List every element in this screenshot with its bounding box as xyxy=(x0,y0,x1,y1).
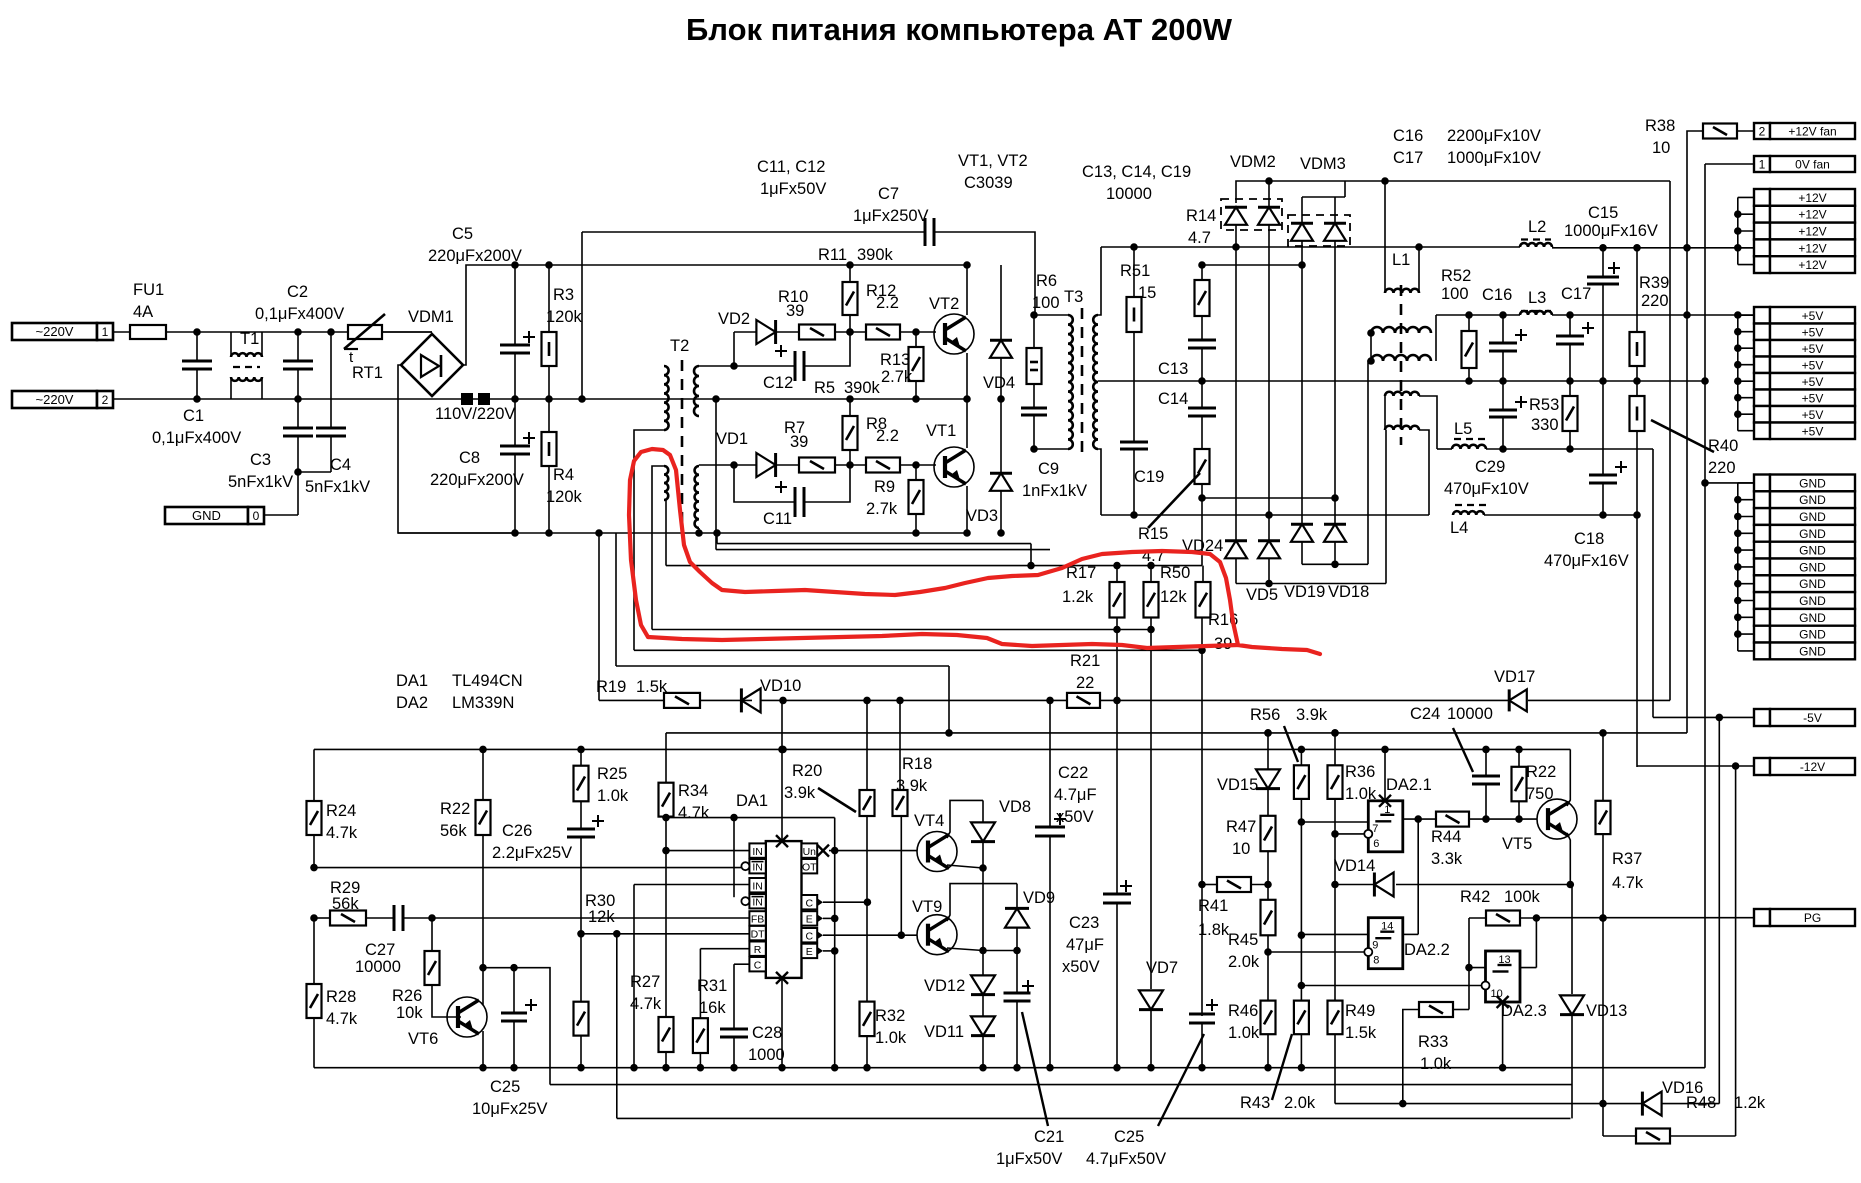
capacitor C22 xyxy=(1049,700,1051,827)
wire C27 to DA1 FB xyxy=(432,917,749,919)
resistor R24 xyxy=(313,749,315,801)
svg-text:DA2.2: DA2.2 xyxy=(1404,941,1450,959)
wire R36 chain xyxy=(1334,799,1336,1001)
resistor R51 xyxy=(1133,247,1135,297)
diode VD5 pair xyxy=(1225,541,1247,559)
svg-text:R44: R44 xyxy=(1431,828,1461,846)
svg-text:VD10: VD10 xyxy=(760,677,801,695)
diode VD15 xyxy=(1264,729,1272,737)
svg-text:C24: C24 xyxy=(1410,705,1440,723)
capacitor C29 xyxy=(1502,381,1504,410)
svg-text:5nFx1kV: 5nFx1kV xyxy=(228,473,293,491)
svg-text:R38: R38 xyxy=(1645,117,1675,135)
svg-text:C23: C23 xyxy=(1069,914,1099,932)
svg-text:VT1, VT2: VT1, VT2 xyxy=(958,152,1028,170)
resistor R33 xyxy=(1419,1002,1453,1017)
resistor R26 xyxy=(431,918,433,951)
svg-text:C18: C18 xyxy=(1574,530,1604,548)
svg-text:GND: GND xyxy=(1799,560,1826,574)
svg-text:GND: GND xyxy=(1799,510,1826,524)
wire R20 bottom xyxy=(866,816,868,1002)
svg-text:L2: L2 xyxy=(1528,218,1546,236)
svg-text:C12: C12 xyxy=(763,374,793,392)
svg-text:2.2: 2.2 xyxy=(876,294,899,312)
wire bundle y650 xyxy=(634,649,1202,651)
svg-text:220μFx200V: 220μFx200V xyxy=(430,471,524,489)
resistor R6 xyxy=(1030,311,1038,319)
svg-text:C1: C1 xyxy=(183,407,204,425)
svg-text:47μF: 47μF xyxy=(1066,936,1104,954)
svg-text:C4: C4 xyxy=(330,456,351,474)
svg-text:7: 7 xyxy=(1372,823,1378,835)
svg-text:3.9k: 3.9k xyxy=(784,784,816,802)
svg-text:R52: R52 xyxy=(1441,267,1471,285)
rectifier VDM2 xyxy=(1221,199,1282,230)
wire VT1 collector xyxy=(966,399,968,448)
svg-text:10: 10 xyxy=(1652,139,1670,157)
wire T2 right aux down xyxy=(665,500,667,566)
comparator DA2.1 xyxy=(1368,801,1403,852)
svg-text:R26: R26 xyxy=(392,987,422,1005)
svg-text:GND: GND xyxy=(1799,644,1826,658)
svg-text:3.9k: 3.9k xyxy=(896,777,928,795)
connector PG xyxy=(1754,909,1770,926)
svg-text:R53: R53 xyxy=(1529,396,1559,414)
fuse FU1 xyxy=(130,325,166,339)
svg-text:1.2k: 1.2k xyxy=(1734,1094,1766,1112)
resistor R44 xyxy=(1436,812,1469,827)
wire DA2.1 in- xyxy=(1335,833,1364,835)
wire C7 to T3 primary top xyxy=(934,232,1035,315)
svg-text:T1: T1 xyxy=(240,330,259,348)
resistor R40 xyxy=(1636,381,1638,396)
svg-text:0,1μFx400V: 0,1μFx400V xyxy=(255,305,344,323)
svg-text:GND: GND xyxy=(1799,577,1826,591)
svg-text:C: C xyxy=(806,897,814,909)
svg-text:2.2: 2.2 xyxy=(876,427,899,445)
svg-text:GND: GND xyxy=(1799,611,1826,625)
svg-text:220: 220 xyxy=(1641,292,1669,310)
svg-text:R56: R56 xyxy=(1250,706,1280,724)
wire aux tap y549 xyxy=(715,399,717,550)
svg-text:C13: C13 xyxy=(1158,360,1188,378)
svg-text:C11: C11 xyxy=(763,510,792,528)
svg-text:120k: 120k xyxy=(546,488,583,506)
wire ground rail control xyxy=(314,1067,1705,1069)
snubber chain C13 C14 x1202 xyxy=(1198,261,1206,269)
svg-text:-12V: -12V xyxy=(1800,760,1825,774)
wire +12V aux vertical x1670 xyxy=(1669,181,1671,700)
resistor R43 xyxy=(1294,1001,1309,1035)
svg-text:VD14: VD14 xyxy=(1334,857,1375,875)
wire AC line 2 xyxy=(113,398,432,400)
wire R42 left down xyxy=(1468,918,1470,1010)
wire DA2.1 in+ xyxy=(1301,821,1368,823)
resistor R20 xyxy=(860,790,875,816)
comparator DA2.3 xyxy=(1486,951,1521,1002)
connector -12V xyxy=(1754,758,1770,775)
svg-text:VD2: VD2 xyxy=(718,310,750,328)
svg-text:GND: GND xyxy=(1799,544,1826,558)
wire DA1 C2 to VT9 base xyxy=(823,934,917,936)
resistor R39 xyxy=(1636,248,1638,332)
svg-text:4.7μFx50V: 4.7μFx50V xyxy=(1086,1150,1166,1168)
wire feedback bundle y543 xyxy=(716,533,718,544)
svg-text:1.8k: 1.8k xyxy=(1198,921,1230,939)
svg-text:+5V: +5V xyxy=(1802,342,1824,356)
connector 0V fan xyxy=(1754,156,1770,172)
svg-text:+12V fan: +12V fan xyxy=(1788,125,1836,139)
transistor VT4 xyxy=(917,832,957,872)
svg-text:VD4: VD4 xyxy=(983,374,1015,392)
wire reference rail y733 xyxy=(666,732,1687,734)
svg-text:x50V: x50V xyxy=(1062,958,1100,976)
svg-text:RT1: RT1 xyxy=(352,364,383,382)
diode VD3 xyxy=(1000,399,1002,473)
resistor R9 xyxy=(915,465,917,480)
svg-text:2.0k: 2.0k xyxy=(1228,953,1260,971)
svg-text:x50V: x50V xyxy=(1056,808,1094,826)
wire T3 primary top xyxy=(1034,314,1068,316)
svg-text:L3: L3 xyxy=(1528,289,1546,307)
svg-text:VT1: VT1 xyxy=(926,422,956,440)
svg-text:GND: GND xyxy=(1799,476,1826,490)
svg-text:L5: L5 xyxy=(1454,420,1472,438)
wire DA1 C pin to C28 xyxy=(734,963,749,965)
capacitor C9 xyxy=(1033,384,1035,408)
transistor VT2 xyxy=(934,314,974,354)
wire y265 link xyxy=(1202,264,1302,266)
svg-text:0V fan: 0V fan xyxy=(1795,158,1830,172)
svg-text:VT5: VT5 xyxy=(1502,835,1532,853)
wire -5V distribution down xyxy=(1718,717,1720,1103)
wire -12V distribution down xyxy=(1735,766,1737,1136)
wire VT4 emitter xyxy=(947,865,983,868)
svg-text:470μFx10V: 470μFx10V xyxy=(1444,480,1529,498)
svg-text:C15: C15 xyxy=(1588,204,1618,222)
wire VD16 R48 loop xyxy=(1602,918,1604,1104)
svg-text:12k: 12k xyxy=(588,908,615,926)
svg-text:VD1: VD1 xyxy=(716,430,748,448)
diode VD7 xyxy=(1150,700,1152,989)
wire T3 center tap ground rail xyxy=(1098,380,1705,382)
bridge rectifier VDM1 xyxy=(401,334,463,396)
svg-text:C3: C3 xyxy=(250,451,271,469)
connector ~220V pin 2 xyxy=(12,391,97,408)
diode VD16 xyxy=(1642,1092,1661,1116)
capacitor C26 xyxy=(580,801,582,829)
wire bundle y629 xyxy=(652,629,1151,631)
transistor VT1 xyxy=(934,447,974,487)
wire R42 right down xyxy=(1535,918,1537,968)
wire bundle y565 xyxy=(666,565,1202,567)
wire bridge + output xyxy=(463,265,583,365)
wire +310V rail to T2 region xyxy=(583,264,967,266)
svg-text:R34: R34 xyxy=(678,782,708,800)
svg-text:E: E xyxy=(806,946,813,958)
svg-text:R28: R28 xyxy=(326,988,356,1006)
wire x616 to rail y1118 xyxy=(616,934,618,1119)
svg-text:R27: R27 xyxy=(630,973,660,991)
svg-text:C21: C21 xyxy=(1034,1128,1064,1146)
svg-text:GND: GND xyxy=(1799,594,1826,608)
svg-text:R4: R4 xyxy=(553,466,574,484)
wire VT2 emitter xyxy=(966,353,968,399)
capacitor C4 xyxy=(330,332,332,428)
svg-text:C25: C25 xyxy=(490,1078,520,1096)
svg-text:1000: 1000 xyxy=(748,1046,785,1064)
connector block +5V xyxy=(1754,307,1770,324)
svg-text:+5V: +5V xyxy=(1802,358,1824,372)
capacitor C3 xyxy=(297,399,299,428)
wire rail y515 xyxy=(1101,514,1429,516)
svg-text:+5V: +5V xyxy=(1802,309,1824,323)
diode VD2 xyxy=(734,331,756,333)
svg-text:DA2.3: DA2.3 xyxy=(1501,1002,1547,1020)
capacitor C7 xyxy=(924,218,927,246)
svg-text:R22: R22 xyxy=(1526,763,1556,781)
wire Un loop xyxy=(834,818,836,851)
svg-text:R: R xyxy=(754,944,762,956)
svg-text:L1: L1 xyxy=(1392,251,1410,269)
svg-text:GND: GND xyxy=(192,508,221,523)
wire R19 feed xyxy=(598,533,600,700)
wire VT9 collector xyxy=(947,884,1017,921)
svg-text:1μFx250V: 1μFx250V xyxy=(853,207,929,225)
rectifier VDM3 xyxy=(1288,215,1350,246)
svg-text:R18: R18 xyxy=(902,755,932,773)
svg-text:R48: R48 xyxy=(1686,1094,1716,1112)
svg-text:1.5k: 1.5k xyxy=(636,678,668,696)
diode VD1 xyxy=(734,464,756,466)
resistor R16 xyxy=(1202,566,1204,582)
svg-text:R6: R6 xyxy=(1036,272,1057,290)
resistor R10 xyxy=(799,325,835,340)
svg-text:FU1: FU1 xyxy=(133,281,164,299)
wire rail y918 left xyxy=(314,917,330,919)
wire 0V fan down to ground xyxy=(1705,163,1754,165)
svg-text:VD3: VD3 xyxy=(966,507,998,525)
capacitor C21 1uF xyxy=(1016,951,1018,994)
wire -12V feed xyxy=(1637,765,1754,767)
wire C3 C4 common to GND connector xyxy=(298,471,331,473)
svg-text:IN: IN xyxy=(752,896,763,908)
wire DA1 bottom pin xyxy=(781,978,783,1068)
wire VT5 collector xyxy=(1567,749,1570,806)
svg-text:330: 330 xyxy=(1531,416,1559,434)
wire x582 vertical C7 return xyxy=(581,232,583,399)
connector block GND xyxy=(1754,475,1770,492)
wire y498 link xyxy=(1202,497,1335,499)
thermistor RT1 xyxy=(348,325,382,339)
wire rail y1118 xyxy=(617,1117,1571,1119)
svg-text:2: 2 xyxy=(102,393,109,407)
wire mid rail 110V switch xyxy=(432,398,583,400)
wire VD5 output to L1 xyxy=(1235,558,1237,584)
wire R18 bottom xyxy=(900,816,902,935)
svg-text:120k: 120k xyxy=(546,308,583,326)
svg-text:+12V: +12V xyxy=(1798,208,1826,222)
svg-text:VD11: VD11 xyxy=(924,1023,964,1041)
svg-text:R22: R22 xyxy=(440,800,470,818)
wire -5V winding rail y449 xyxy=(1437,448,1452,450)
svg-text:4.7k: 4.7k xyxy=(678,804,710,822)
capacitor C23 xyxy=(1116,700,1118,894)
svg-text:R50: R50 xyxy=(1160,564,1190,582)
wire DA2.2 output xyxy=(1403,933,1418,935)
svg-text:+5V: +5V xyxy=(1802,424,1824,438)
resistor R4 xyxy=(548,399,550,432)
svg-text:-5V: -5V xyxy=(1803,711,1822,725)
svg-text:10: 10 xyxy=(1232,840,1250,858)
wire Un to VT4 base xyxy=(829,850,917,852)
svg-text:R49: R49 xyxy=(1345,1002,1375,1020)
wire VT9 emitter xyxy=(947,948,983,951)
wire +12V rail xyxy=(1552,247,1754,249)
svg-text:GND: GND xyxy=(1799,628,1826,642)
transistor VT5 xyxy=(1537,799,1577,839)
svg-text:OT: OT xyxy=(802,861,817,873)
svg-text:100: 100 xyxy=(1441,285,1469,303)
resistor R25 xyxy=(580,749,582,765)
svg-text:39: 39 xyxy=(786,302,804,320)
capacitor C16 2200uF xyxy=(1502,315,1504,343)
svg-text:+5V: +5V xyxy=(1802,391,1824,405)
svg-text:C29: C29 xyxy=(1475,458,1505,476)
resistor R48 xyxy=(1636,1129,1670,1144)
svg-text:1.5k: 1.5k xyxy=(1345,1024,1377,1042)
svg-text:R40: R40 xyxy=(1708,437,1738,455)
svg-text:GND: GND xyxy=(1799,493,1826,507)
svg-text:R14: R14 xyxy=(1186,207,1216,225)
capacitor C12 xyxy=(733,332,735,366)
node main DC rails xyxy=(511,261,519,269)
svg-text:3.9k: 3.9k xyxy=(1296,706,1328,724)
svg-text:IN: IN xyxy=(752,861,763,873)
svg-text:IN: IN xyxy=(752,880,763,892)
svg-text:VD8: VD8 xyxy=(999,798,1031,816)
svg-text:3.3k: 3.3k xyxy=(1431,850,1463,868)
wire R16 chain down xyxy=(1201,618,1203,1017)
svg-text:GND: GND xyxy=(1799,527,1826,541)
capacitor C11 xyxy=(734,465,795,502)
svg-text:10000: 10000 xyxy=(355,958,401,976)
wire control top rail y749 xyxy=(314,748,1570,750)
svg-text:R21: R21 xyxy=(1070,652,1100,670)
wire VD19 VD18 output to L1 xyxy=(1301,542,1303,564)
resistor R28 xyxy=(313,918,315,984)
resistor R7 xyxy=(799,458,835,473)
svg-text:C11, C12: C11, C12 xyxy=(757,158,825,176)
svg-text:5nFx1kV: 5nFx1kV xyxy=(305,478,370,496)
wire -12V rail y1084 xyxy=(550,1084,1572,1086)
svg-text:C17: C17 xyxy=(1561,285,1591,303)
resistor R5 xyxy=(849,399,851,416)
wire VT4 collector xyxy=(947,800,983,838)
svg-text:2.7k: 2.7k xyxy=(881,368,913,386)
svg-text:R51: R51 xyxy=(1120,262,1150,280)
svg-text:100: 100 xyxy=(1032,294,1060,312)
svg-text:4.7: 4.7 xyxy=(1188,229,1211,247)
svg-text:+12V: +12V xyxy=(1798,241,1826,255)
wire -5V feed xyxy=(1652,449,1654,717)
svg-text:R9: R9 xyxy=(874,478,895,496)
svg-text:1.0k: 1.0k xyxy=(1420,1055,1452,1073)
diode VD10 xyxy=(741,688,760,712)
svg-text:470μFx16V: 470μFx16V xyxy=(1544,552,1629,570)
wire DA2.1 top to rail xyxy=(1384,749,1386,800)
svg-text:1μFx50V: 1μFx50V xyxy=(996,1150,1062,1168)
svg-text:R15: R15 xyxy=(1138,525,1168,543)
wire DA1 E pins common xyxy=(834,851,836,1068)
wire IN2 feed xyxy=(634,884,749,886)
svg-text:10000: 10000 xyxy=(1106,185,1152,203)
wire bridge - output xyxy=(398,365,515,533)
wire DA2.2 in+ xyxy=(1301,933,1368,935)
svg-text:R20: R20 xyxy=(792,762,822,780)
svg-text:1: 1 xyxy=(1759,158,1766,172)
svg-text:C13, C14, C19: C13, C14, C19 xyxy=(1082,163,1191,181)
svg-text:110V/220V: 110V/220V xyxy=(435,405,515,423)
resistor R45 xyxy=(1267,885,1269,900)
svg-text:LM339N: LM339N xyxy=(452,694,514,712)
svg-text:1000μFx16V: 1000μFx16V xyxy=(1564,222,1658,240)
svg-text:2.2μFx25V: 2.2μFx25V xyxy=(492,844,572,862)
wire x634 lower to ground xyxy=(633,885,635,1068)
svg-text:4.7k: 4.7k xyxy=(326,824,358,842)
capacitor C1 xyxy=(196,332,198,361)
svg-text:16k: 16k xyxy=(699,999,726,1017)
wire RT1 right to bridge xyxy=(382,331,432,333)
resistor R21 xyxy=(1067,693,1100,708)
svg-text:10μFx25V: 10μFx25V xyxy=(472,1100,548,1118)
svg-text:0: 0 xyxy=(253,509,260,523)
wire R38 to +12V rail and down xyxy=(1687,131,1703,733)
resistor R37 xyxy=(1602,733,1604,801)
svg-text:C7: C7 xyxy=(878,185,899,203)
svg-text:L4: L4 xyxy=(1450,519,1468,537)
connector +12V fan xyxy=(1754,123,1770,139)
svg-text:C: C xyxy=(806,930,814,942)
svg-text:10k: 10k xyxy=(396,1004,423,1022)
connector GND pin 0 xyxy=(165,507,248,524)
svg-text:2.7k: 2.7k xyxy=(866,500,898,518)
svg-text:R31: R31 xyxy=(697,977,727,995)
resistor R47 xyxy=(1261,816,1276,851)
svg-text:R5: R5 xyxy=(814,379,835,397)
svg-text:R39: R39 xyxy=(1639,274,1669,292)
wire T2 sec2 top to VD1 xyxy=(699,464,734,466)
svg-text:VD15: VD15 xyxy=(1217,776,1258,794)
capacitor C18 xyxy=(1602,381,1604,475)
svg-text:220: 220 xyxy=(1708,459,1736,477)
svg-text:VDM1: VDM1 xyxy=(408,308,454,326)
diode VD9 xyxy=(1016,884,1018,908)
svg-text:C3039: C3039 xyxy=(964,174,1013,192)
svg-text:DA1: DA1 xyxy=(736,792,768,810)
svg-text:100k: 100k xyxy=(1504,888,1541,906)
svg-text:0,1μFx400V: 0,1μFx400V xyxy=(152,429,241,447)
resistor R29 xyxy=(330,911,366,926)
svg-text:DA2: DA2 xyxy=(396,694,428,712)
svg-text:~220V: ~220V xyxy=(36,324,74,339)
svg-text:VDM3: VDM3 xyxy=(1300,155,1346,173)
svg-text:4.7k: 4.7k xyxy=(630,995,662,1013)
wire secondary rail y247 xyxy=(1101,246,1520,248)
svg-text:DT: DT xyxy=(751,928,766,940)
resistor R53 xyxy=(1569,381,1571,396)
svg-text:VT4: VT4 xyxy=(914,812,944,830)
